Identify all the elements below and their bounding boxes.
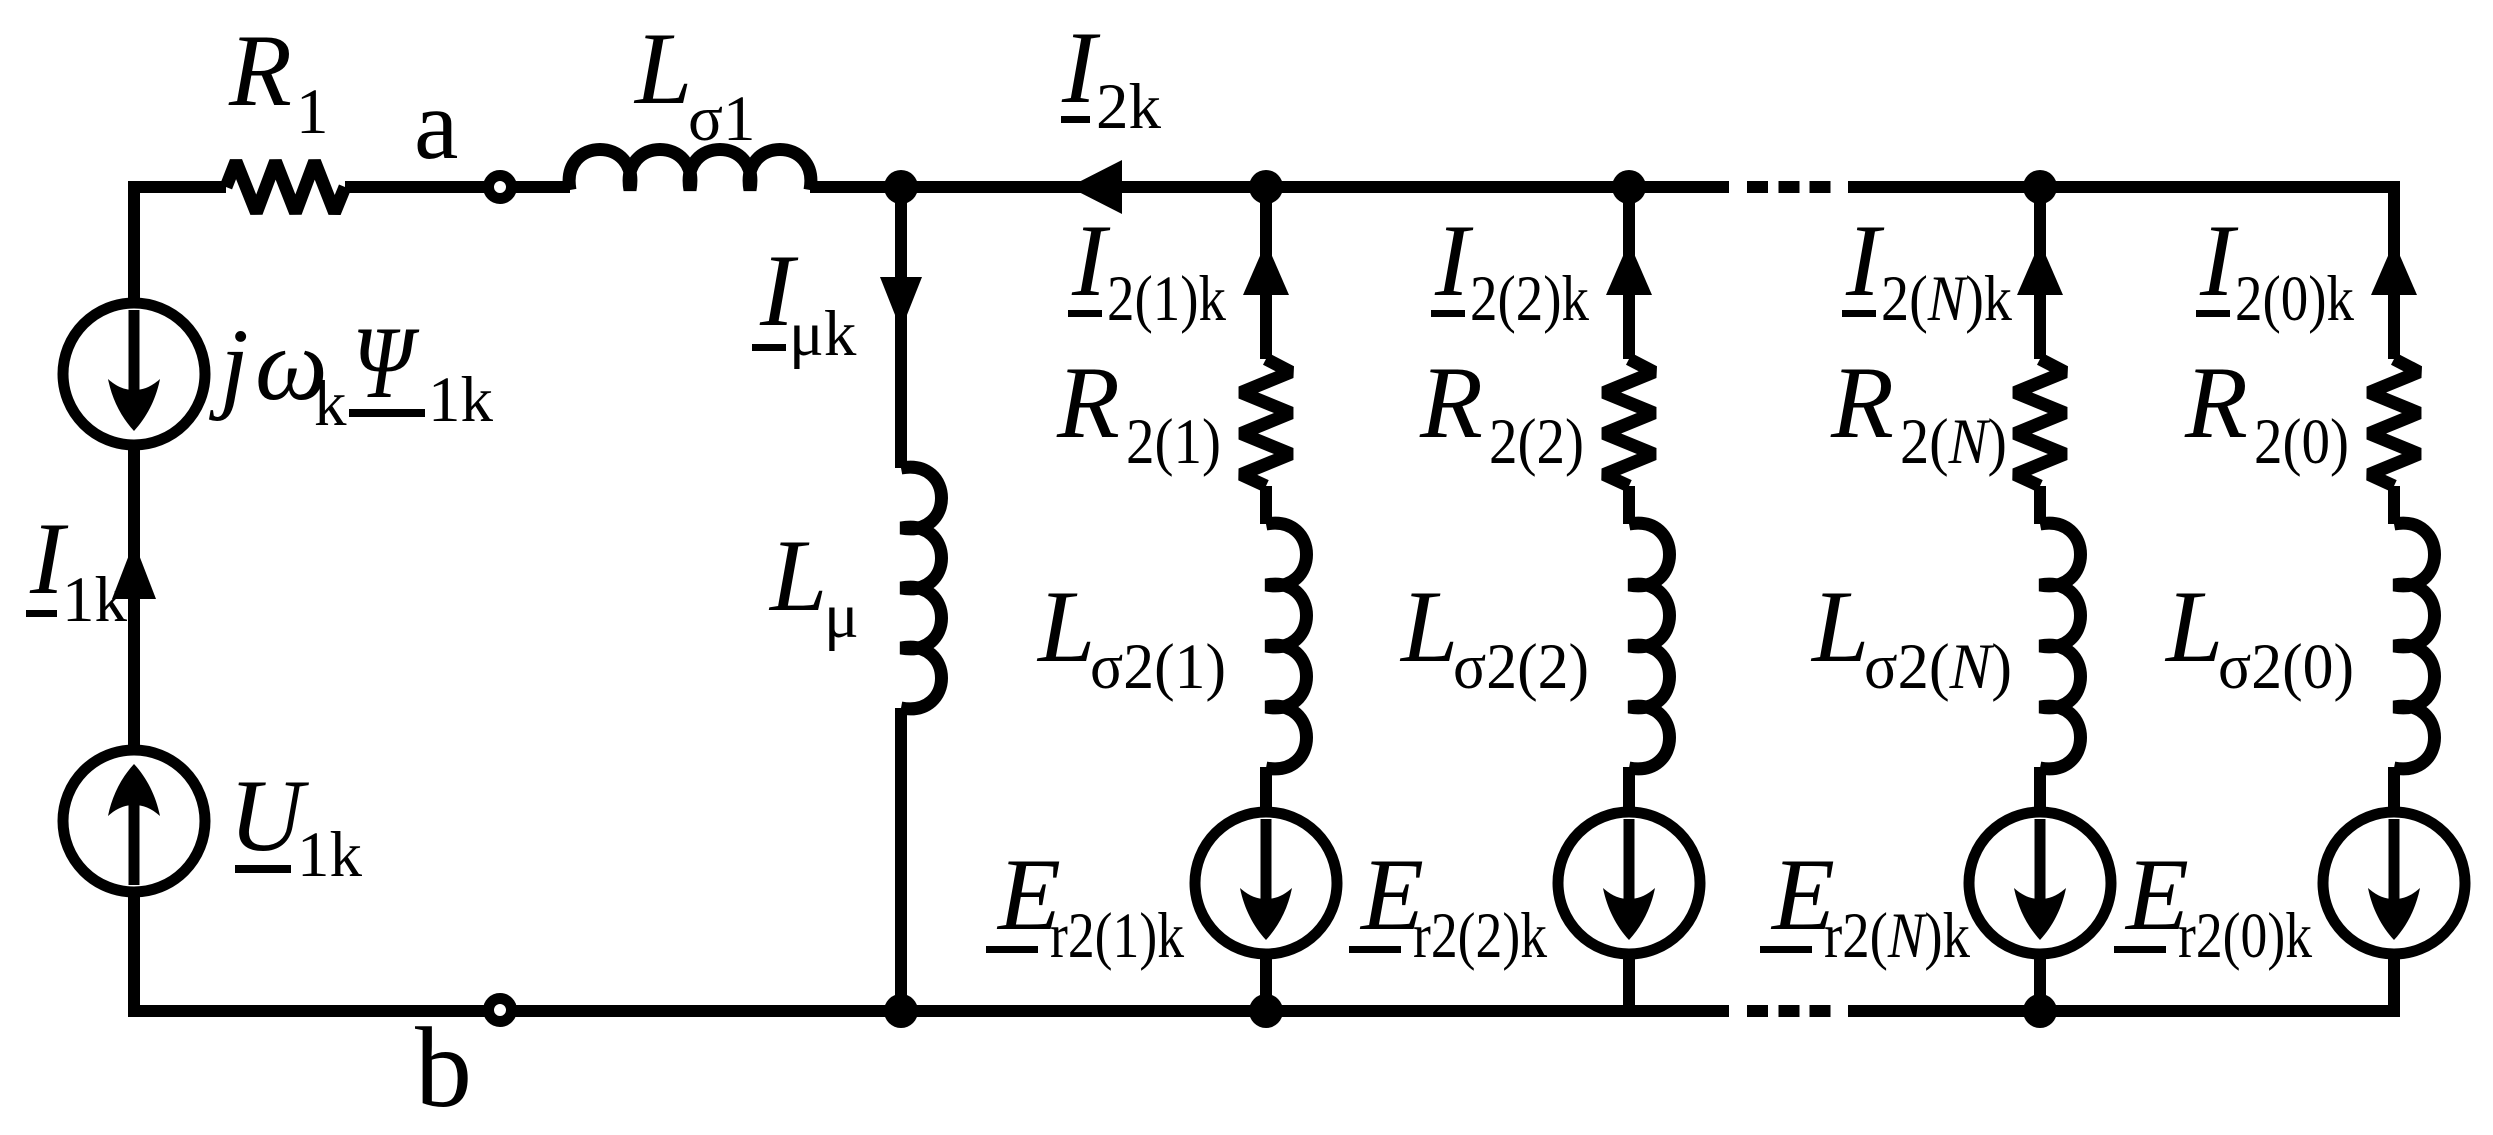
inductor Lσ1	[569, 150, 811, 191]
svg-text:2(0): 2(0)	[2254, 406, 2349, 478]
label Er2(N)k	[1760, 838, 1970, 972]
label R2(N)	[1830, 346, 2007, 478]
svg-text:I: I	[1061, 11, 1101, 125]
wire branch 2(0) lower	[2388, 953, 2400, 1017]
source Er2(0)k	[2323, 812, 2465, 954]
svg-text:2(N): 2(N)	[1900, 406, 2007, 478]
svg-text:I: I	[1434, 204, 1474, 318]
label node b	[415, 1004, 472, 1131]
source Er2(2)k	[1558, 812, 1700, 954]
arrow inside jωΨ source	[108, 310, 160, 431]
label Er2(0)k	[2114, 838, 2312, 972]
wire Lμ lower	[895, 708, 907, 1011]
svg-text:I: I	[1071, 204, 1111, 318]
svg-text:L: L	[633, 12, 692, 126]
junction top branch 2(1)	[1249, 170, 1283, 204]
svg-text:σ2(2): σ2(2)	[1453, 631, 1589, 703]
svg-text:k: k	[314, 368, 347, 440]
source Er2(1)k	[1195, 812, 1337, 954]
wire top right	[1848, 181, 2400, 193]
arrow inside Er2(1)k source	[1240, 819, 1292, 940]
label R1	[228, 14, 329, 148]
label I2(0)k	[2196, 204, 2354, 335]
wire top-left segment	[134, 181, 226, 193]
svg-text:R: R	[2184, 346, 2248, 460]
arrow Iμk on Lμ branch	[880, 277, 922, 330]
svg-text:I: I	[2199, 204, 2239, 318]
label Lσ1	[633, 12, 756, 155]
label Er2(2)k	[1349, 838, 1547, 972]
wire top dashes	[1747, 181, 1831, 193]
wire branch 2(0) mid1	[2388, 486, 2400, 524]
arrow I2(2)k	[1606, 242, 1652, 295]
label jωkΨ1k	[208, 305, 494, 440]
label R2(2)	[1419, 346, 1584, 478]
label R2(0)	[2184, 346, 2349, 478]
wire branch 2(2) mid1	[1623, 486, 1635, 524]
label I2(2)k	[1431, 204, 1589, 335]
inductor Lσ2(1)	[1266, 523, 1307, 769]
svg-text:R: R	[1419, 346, 1483, 460]
label Lσ2(2)	[1399, 570, 1589, 703]
junction bottom branch 2(1)	[1249, 994, 1283, 1028]
wire bottom right	[1848, 1005, 2400, 1017]
svg-text:b: b	[415, 1004, 472, 1131]
junction bottom branch 2(N)	[2023, 994, 2057, 1028]
wire top middle	[810, 181, 1729, 193]
wire R1 to node a to Lσ1	[345, 181, 570, 193]
label U1k	[229, 759, 363, 891]
source Er2(N)k	[1969, 812, 2111, 954]
inductor Lσ2(N)	[2040, 523, 2081, 769]
inductor Lμ	[901, 467, 942, 709]
wire branch 2(1) mid2	[1260, 767, 1272, 813]
label Lσ2(N)	[1810, 570, 2012, 703]
arrow inside U1k source	[108, 764, 160, 885]
wire branch 2(N) upper	[2034, 181, 2046, 359]
arrow I2(1)k	[1243, 242, 1289, 295]
junction top branch 2(N)	[2023, 170, 2057, 204]
arrow inside Er2(0)k source	[2368, 819, 2420, 940]
svg-text:1k: 1k	[428, 364, 494, 436]
resistor R2(N)	[2015, 359, 2065, 486]
resistor R2(0)	[2369, 359, 2419, 486]
node a	[489, 176, 512, 199]
wire left middle	[128, 444, 140, 747]
wire Lμ upper	[895, 187, 907, 468]
wire branch 2(N) mid2	[2034, 767, 2046, 813]
svg-text:2(0)k: 2(0)k	[2235, 263, 2354, 335]
svg-text:2(N)k: 2(N)k	[1881, 263, 2012, 335]
label Er2(1)k	[986, 838, 1184, 972]
arrow I2(N)k	[2017, 242, 2063, 295]
node b	[489, 999, 512, 1022]
label node a	[414, 69, 458, 180]
label Lσ2(1)	[1036, 570, 1226, 703]
wire bottom left	[134, 1005, 1729, 1017]
wire branch 2(N) lower	[2034, 953, 2046, 1011]
arrow I1k on left wire	[112, 542, 156, 599]
label I2(N)k	[1842, 204, 2012, 335]
svg-text:I: I	[1845, 204, 1885, 318]
current source jωΨ	[63, 303, 205, 445]
voltage source U1k	[63, 750, 205, 892]
junction bottom Lμ	[884, 994, 918, 1028]
svg-text:μ: μ	[824, 580, 859, 652]
svg-text:L: L	[768, 519, 827, 633]
svg-text:1k: 1k	[297, 819, 363, 891]
svg-text:2k: 2k	[1096, 71, 1162, 143]
svg-text:R: R	[228, 14, 292, 128]
wire branch 2(1) upper	[1260, 181, 1272, 359]
svg-text:1: 1	[296, 76, 329, 148]
svg-text:r2(1)k: r2(1)k	[1050, 900, 1184, 972]
wire left upper	[128, 181, 140, 304]
wire branch 2(0) upper	[2388, 181, 2400, 359]
svg-text:R: R	[1056, 346, 1120, 460]
arrow inside Er2(2)k source	[1603, 819, 1655, 940]
resistor R2(1)	[1241, 359, 1291, 486]
wire branch 2(1) lower	[1260, 953, 1272, 1011]
resistor R1	[226, 162, 345, 213]
wire branch 2(2) upper	[1623, 181, 1635, 359]
svg-text:Ψ: Ψ	[352, 305, 420, 420]
svg-text:σ2(0): σ2(0)	[2218, 631, 2354, 703]
wire branch 2(0) mid2	[2388, 767, 2400, 813]
svg-text:μk: μk	[789, 298, 857, 370]
resistor R2(2)	[1604, 359, 1654, 486]
label I1k	[26, 502, 128, 636]
svg-text:L: L	[1810, 570, 1869, 684]
svg-text:σ2(N): σ2(N)	[1864, 631, 2012, 703]
wire branch 2(2) lower	[1623, 953, 1635, 1011]
label Iμk	[752, 234, 857, 370]
svg-text:L: L	[2164, 570, 2223, 684]
wire branch 2(1) mid1	[1260, 486, 1272, 524]
svg-text:1k: 1k	[62, 564, 128, 636]
junction top Lμ	[884, 170, 918, 204]
label Lμ	[768, 519, 859, 652]
label R2(1)	[1056, 346, 1221, 478]
svg-text:2(2): 2(2)	[1489, 406, 1584, 478]
wire branch 2(N) mid1	[2034, 486, 2046, 524]
arrow I2k on top wire	[1069, 160, 1122, 214]
svg-text:L: L	[1399, 570, 1458, 684]
wire left lower	[128, 893, 140, 1017]
arrow I2(0)k	[2371, 242, 2417, 295]
svg-text:r2(N)k: r2(N)k	[1824, 900, 1970, 972]
svg-text:σ2(1): σ2(1)	[1090, 631, 1226, 703]
svg-text:r2(0)k: r2(0)k	[2178, 900, 2312, 972]
svg-text:r2(2)k: r2(2)k	[1413, 900, 1547, 972]
wire bottom dashes	[1747, 1005, 1831, 1017]
inductor Lσ2(0)	[2394, 523, 2435, 769]
svg-text:a: a	[414, 69, 458, 180]
label I2k	[1061, 11, 1162, 143]
svg-text:σ1: σ1	[688, 83, 756, 155]
svg-text:2(1)k: 2(1)k	[1107, 263, 1226, 335]
arrow inside Er2(N)k source	[2014, 819, 2066, 940]
svg-text:R: R	[1830, 346, 1894, 460]
svg-text:2(1): 2(1)	[1126, 406, 1221, 478]
svg-text:2(2)k: 2(2)k	[1470, 263, 1589, 335]
label I2(1)k	[1068, 204, 1226, 335]
svg-text:L: L	[1036, 570, 1095, 684]
inductor Lσ2(2)	[1629, 523, 1670, 769]
junction top branch 2(2)	[1612, 170, 1646, 204]
wire branch 2(2) mid2	[1623, 767, 1635, 813]
label Lσ2(0)	[2164, 570, 2354, 703]
